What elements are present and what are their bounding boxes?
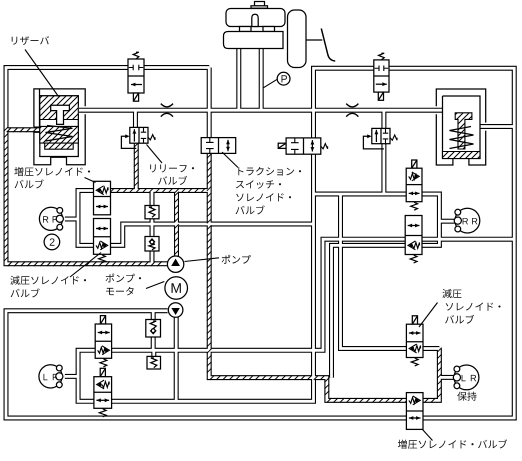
LF outlet solenoid valve solenoid [100, 316, 105, 324]
wire wire to LF wheel cylinder [65, 374, 78, 379]
valve U5 flow arrow [311, 140, 313, 151]
RF outlet solenoid valve body [94, 219, 111, 255]
RF inlet valve flow arrow [96, 206, 108, 208]
valve U1 closed position symbol [129, 65, 143, 70]
reservoir spring [46, 126, 73, 142]
wire wire to RR outlet valve [314, 192, 407, 197]
brake booster [288, 10, 307, 68]
check valve C2 body [145, 237, 159, 252]
LF wheel cylinder [39, 365, 62, 388]
label hoji: 保持 [457, 392, 476, 401]
wheel label L R [462, 375, 477, 381]
wire hatched passage RF inlet valve to traction valve line [111, 188, 210, 193]
check valve C4 body [147, 356, 161, 369]
RF outlet valve flow arrow [96, 228, 108, 230]
wire main supply line from reservoir to accumulator [79, 108, 444, 113]
leader line motor label [146, 282, 164, 289]
wire wire from LF outlet valve up and right to frame [112, 239, 515, 350]
label trac3: ソレノイド・ [236, 193, 291, 201]
label pm2: モータ [106, 287, 134, 296]
wire wire from RR inlet valve left and down [332, 245, 406, 377]
RF inlet valve check symbol [98, 189, 101, 192]
label P [282, 75, 288, 82]
RF inlet solenoid valve body [94, 181, 111, 215]
leader line pump label [185, 258, 220, 262]
LR outlet valve flow arrow [409, 332, 421, 334]
solenoid valve U2 spring [379, 53, 385, 60]
wire wire to LR wheel cylinder [439, 375, 454, 380]
RR inlet valve flow arrow [408, 225, 420, 227]
LR inlet valve flow arrow [409, 417, 421, 419]
wire stub check C3 top [151, 311, 156, 320]
LR inlet valve check symbol [415, 399, 418, 402]
valve U4 flow arrow [227, 140, 229, 151]
wire hatched stub frame to reservoir [6, 127, 40, 132]
brake pedal [321, 29, 335, 62]
LR outlet solenoid valve body [406, 324, 423, 357]
reservoir upper piston chamber (hatched) [40, 96, 79, 120]
LF inlet solenoid valve solenoid [100, 368, 105, 376]
RR outlet valve spring [411, 202, 418, 210]
traction solenoid valve U4 body [201, 138, 236, 154]
RR outlet solenoid valve body [406, 168, 422, 202]
wire wire loop RR valves [422, 194, 439, 245]
accumulator piston (hatched T) [455, 113, 472, 149]
LR outlet valve spring [411, 358, 418, 366]
wire stub check C2 bottom [150, 251, 155, 264]
LF outlet valve flow arrow [98, 332, 110, 334]
wire master cylinder pipe 2 (P line) [259, 49, 264, 111]
valve U5 spring [321, 144, 328, 149]
LF outlet solenoid valve body [95, 324, 111, 358]
wire wire from valve U1 down to traction valve U4 [207, 68, 212, 138]
label genatsuL1: 減圧ソレノイド・ [10, 276, 86, 285]
check valve C3 ball and seat [150, 330, 156, 333]
wire wire branch down to LR outlet valve [341, 194, 440, 349]
master cylinder body [224, 32, 284, 49]
LR outlet valve check symbol [411, 347, 414, 350]
valve U1 flow arrow [131, 84, 142, 86]
accumulator base (hatched) [443, 152, 481, 159]
label rizaba: リザーバ [12, 36, 49, 45]
reservoir body outline [34, 89, 85, 165]
wire stub check C4 top [151, 350, 156, 356]
leader line LR outlet valve label [419, 303, 438, 328]
wheel label R F [43, 216, 57, 222]
reservoir piston (T shape) [51, 105, 70, 124]
reservoir base (hatched) [45, 143, 73, 149]
wire wire: top frame + left frame + reservoir-return channel to pump [6, 68, 209, 264]
valve U2 solenoid [378, 92, 383, 100]
wire wire down to traction valve U5 [311, 110, 316, 138]
relief valve U6 body [372, 128, 390, 143]
LF outlet valve spring [100, 359, 107, 367]
leader line LR inlet valve label [423, 430, 433, 441]
wire wire from RF outlet valve to main down-line [111, 224, 314, 245]
hatching on drilled passages [4, 127, 442, 403]
solenoid valve U2 body [374, 60, 389, 92]
wire wire to RR wheel cylinder [439, 219, 455, 224]
wire wire loop LF valves [78, 350, 95, 401]
orifice (right) [346, 104, 358, 117]
leader line RF outlet valve label [70, 253, 101, 278]
RR wheel cylinder [455, 208, 480, 233]
wire pipe below pump to LF line [174, 317, 179, 401]
LF outlet valve check symbol [105, 349, 108, 352]
check valve C3 body [146, 320, 161, 338]
orifice (left) [161, 104, 173, 117]
accumulator inner chamber [443, 96, 481, 159]
wire pipe main line to left relief valve [133, 110, 138, 127]
accumulator outline [436, 89, 485, 165]
wire stub check C2 top [150, 224, 155, 237]
RR inlet valve check symbol [410, 244, 413, 247]
RR outlet solenoid valve solenoid [412, 160, 417, 168]
RR inlet solenoid valve body [405, 216, 422, 255]
wire wire to RF wheel cylinder [65, 217, 78, 222]
check valve C3 spring [150, 321, 156, 329]
wire drilled return passage (hatched) from traction valve to LR [209, 153, 439, 400]
solenoid valve U1 body [128, 59, 144, 93]
booster push rod [306, 39, 322, 41]
relief valve U3 flow arrow [133, 129, 135, 141]
relief valve U6 spring [390, 135, 397, 140]
RF wheel cylinder [39, 207, 62, 230]
wire hatched passage below left relief valve [134, 143, 139, 190]
label pump: ポンプ [222, 255, 251, 264]
label genatsuR3: バルブ [445, 315, 474, 324]
LR wheel cylinder [454, 365, 479, 390]
RR outlet valve flow arrow [409, 192, 420, 194]
LR outlet solenoid valve solenoid [412, 316, 417, 324]
RR inlet valve spring [410, 255, 417, 263]
wire stub check C3 bottom [151, 337, 156, 350]
RR outlet valve check symbol [414, 175, 417, 178]
leader line relief valve label [147, 145, 163, 164]
relief valve U6 pilot line [363, 136, 384, 149]
valve U1 solenoid [133, 93, 138, 101]
wire accumulator outlet wire [481, 124, 515, 129]
leader line traction valve label [222, 152, 238, 168]
valve U2 flow arrow [376, 83, 387, 85]
valve U5 closed symbol [291, 138, 299, 154]
label 2 [50, 238, 55, 245]
wire wire through right relief valve down to RR line [381, 110, 386, 194]
label zoatsu1a: 増圧ソレノイド・ [14, 167, 90, 176]
annotation circle 2 [44, 234, 60, 250]
label M [172, 283, 181, 293]
RF outlet valve spring [99, 255, 106, 263]
label pm1: ポンプ・ [106, 274, 142, 283]
label trac1: トラクション・ [238, 167, 301, 176]
relief valve U6 flow arrow [375, 130, 377, 142]
LF inlet valve spring [99, 409, 106, 417]
solenoid valve U1 spring [133, 52, 139, 59]
wire wire loop RF valves [78, 191, 94, 246]
leader line P [263, 79, 277, 88]
relief valve U6 closed symbol [383, 129, 388, 144]
wheel label L F [44, 374, 58, 380]
LF inlet solenoid valve body [94, 377, 112, 409]
node P (primary line) [277, 72, 290, 85]
brake fluid reservoir cap [255, 2, 265, 7]
reservoir filler tube [252, 14, 258, 26]
reservoir inner walls [40, 96, 79, 157]
reservoir lower chamber (hatched) [40, 126, 79, 143]
label genatsuR1: 減圧 [442, 289, 461, 298]
wire stub check C1 top [150, 191, 155, 206]
pump motor M [165, 277, 188, 300]
RF outlet valve check symbol [103, 244, 106, 247]
leader line reservoir label [25, 50, 59, 97]
pump P1 (upper) [167, 256, 183, 272]
wire wire from traction valve U5 down to LF inlet valve [112, 154, 314, 401]
LF inlet valve check symbol [98, 383, 101, 386]
leader line RF inlet valve label [85, 178, 96, 183]
pump P2 (lower) [168, 303, 183, 318]
check valve C2 spring [149, 244, 155, 250]
LR inlet solenoid valve body [406, 393, 423, 430]
brake fluid reservoir (master cylinder) [226, 9, 285, 27]
label trac2: スイッチ・ [236, 180, 281, 189]
traction solenoid valve U5 body [286, 138, 321, 154]
wire hatched passage down to pump [174, 191, 179, 257]
check valve C4 spring [151, 358, 157, 368]
label trac4: バルブ [236, 205, 265, 214]
check valve C2 ball and seat [149, 239, 155, 242]
label zoatsuB: 増圧ソレノイド・バルブ [398, 439, 507, 448]
relief valve U3 spring [148, 135, 155, 140]
wire wire: P branch up, through valve U2 to right edge, bottom return, lower enclosure [6, 68, 514, 418]
relief valve U3 body [130, 127, 148, 143]
check valve C1 body [145, 206, 159, 219]
LF inlet valve flow arrow [96, 399, 109, 401]
wire stub check C1 bottom [150, 219, 155, 224]
traction solenoid valve U5 solenoid [278, 143, 286, 148]
label zoatsu1b: バルブ [15, 179, 44, 188]
wheel label R R [463, 218, 478, 224]
relief valve U3 pilot line [121, 136, 136, 148]
check valve C1 spring [149, 207, 155, 217]
valve U2 closed position symbol [375, 66, 389, 71]
valve U4 closed symbol [206, 138, 214, 153]
label genatsuL2: バルブ [11, 288, 40, 297]
label genatsuR2: ソレノイド・ [446, 303, 501, 311]
wire master cylinder pipe 1 [236, 49, 241, 111]
reservoir feed ports [240, 27, 252, 32]
accumulator spring [450, 127, 474, 149]
relief valve U3 closed symbol [141, 128, 146, 143]
label ririfu-b: バルブ [158, 176, 187, 185]
label ririfu-a: リリーフ・ [150, 164, 194, 172]
